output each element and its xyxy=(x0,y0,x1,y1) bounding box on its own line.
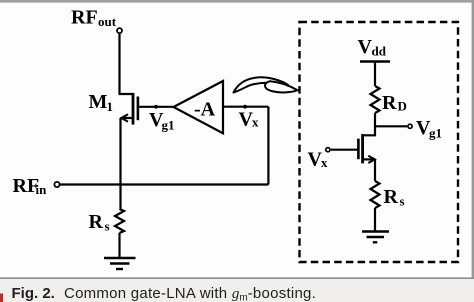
svg-text:g1: g1 xyxy=(162,118,175,133)
node Vx label (box) xyxy=(308,149,329,171)
svg-text:R: R xyxy=(384,186,399,208)
node Vg1 junction dot xyxy=(154,105,158,109)
node RFout label xyxy=(71,7,117,30)
wire M1 source down xyxy=(119,118,121,209)
svg-text:x: x xyxy=(321,155,328,170)
wire RD to transistor drain xyxy=(363,113,375,135)
wire Rs to ground xyxy=(118,233,120,258)
port Vg1 terminal (box) xyxy=(408,124,412,128)
resistor RD xyxy=(371,86,380,113)
wire RFin xyxy=(60,183,268,185)
caption bar background xyxy=(0,279,474,302)
wire M1 gate to amp output xyxy=(139,106,173,108)
node Vg1 label (box) xyxy=(416,117,442,141)
resistor Rs (box) xyxy=(371,181,380,208)
svg-text:R: R xyxy=(89,211,104,233)
wire Vx down to RFin line xyxy=(267,107,269,185)
caption bar border xyxy=(0,277,474,279)
svg-text:x: x xyxy=(252,115,259,130)
resistor RD label xyxy=(382,92,407,114)
node Vx label xyxy=(239,109,260,131)
svg-text:R: R xyxy=(382,92,397,114)
ground (box) xyxy=(362,232,389,243)
curved arrow annotation xyxy=(234,77,298,92)
dashed enclosure box xyxy=(300,22,459,262)
node Vg1 label xyxy=(149,109,175,133)
op-amp -A xyxy=(174,81,224,133)
page frame right bar xyxy=(472,0,474,302)
port RFout terminal xyxy=(117,28,122,33)
transistor M1 label xyxy=(89,91,114,114)
svg-text:1: 1 xyxy=(107,99,114,114)
transistor M1 xyxy=(121,93,138,125)
wire Vx to gate (box) xyxy=(331,149,357,151)
wire source to Rs (box) xyxy=(374,159,376,181)
wire drain tap to Vg1 port xyxy=(375,125,407,127)
resistor Rs label (left) xyxy=(89,211,110,234)
ground (left) xyxy=(104,258,136,269)
svg-text:s: s xyxy=(400,194,405,209)
port RFin terminal xyxy=(54,182,59,187)
resistor Rs (left) xyxy=(115,209,124,233)
caption red marker xyxy=(0,294,3,302)
resistor Rs label (box) xyxy=(384,186,405,209)
svg-text:s: s xyxy=(105,219,110,234)
svg-text:-A: -A xyxy=(194,99,216,121)
wire amp input to Vx xyxy=(223,106,268,108)
svg-text:V: V xyxy=(358,36,373,58)
page frame top bar xyxy=(0,0,474,3)
svg-text:M: M xyxy=(89,91,108,113)
svg-text:in: in xyxy=(36,182,48,197)
power Vdd label xyxy=(358,36,387,59)
svg-text:out: out xyxy=(98,14,117,29)
port Vx terminal (box) xyxy=(326,148,330,152)
svg-text:RF: RF xyxy=(71,7,98,29)
wire RFout to M1 drain xyxy=(120,34,134,94)
svg-text:dd: dd xyxy=(372,44,387,59)
power Vdd supply bar xyxy=(360,60,390,63)
node RFin label xyxy=(13,175,48,197)
transistor (box) xyxy=(358,134,374,163)
node Vx junction dot xyxy=(243,105,247,109)
svg-text:g1: g1 xyxy=(429,126,442,141)
svg-text:D: D xyxy=(398,99,407,114)
wire Vdd to RD xyxy=(374,62,376,87)
wire Rs to ground (box) xyxy=(374,208,376,232)
